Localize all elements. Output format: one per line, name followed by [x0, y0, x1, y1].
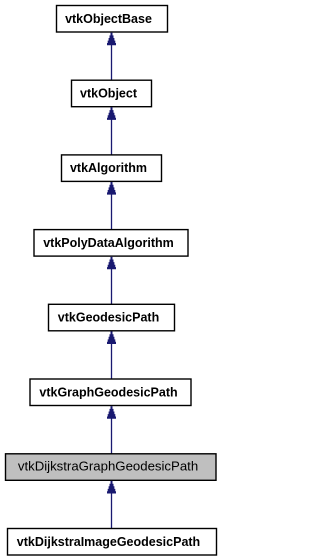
node vtkAlgorithm — [62, 155, 162, 182]
node vtkObjectBase — [57, 6, 168, 33]
svg-text:vtkDijkstraImageGeodesicPath: vtkDijkstraImageGeodesicPath — [17, 535, 200, 549]
edge vtkObject to vtkObjectBase — [106, 33, 116, 81]
svg-text:vtkAlgorithm: vtkAlgorithm — [70, 161, 147, 175]
node vtkObject — [72, 80, 152, 107]
edge vtkGeodesicPath to vtkPolyDataAlgorithm — [106, 257, 116, 305]
node vtkGeodesicPath — [49, 304, 175, 331]
edge vtkDijkstraImageGeodesicPath to vtkDijkstraGraphGeodesicPath — [106, 481, 116, 529]
node vtkGraphGeodesicPath — [30, 379, 191, 406]
edge vtkPolyDataAlgorithm to vtkAlgorithm — [106, 182, 116, 230]
node vtkDijkstraGraphGeodesicPath (current class, grey) — [6, 454, 217, 481]
svg-text:vtkGraphGeodesicPath: vtkGraphGeodesicPath — [39, 385, 177, 399]
svg-text:vtkPolyDataAlgorithm: vtkPolyDataAlgorithm — [43, 236, 174, 250]
svg-text:vtkObject: vtkObject — [80, 87, 138, 101]
node vtkPolyDataAlgorithm — [34, 230, 188, 257]
node vtkDijkstraImageGeodesicPath — [8, 529, 217, 556]
svg-text:vtkObjectBase: vtkObjectBase — [65, 12, 152, 26]
svg-text:vtkGeodesicPath: vtkGeodesicPath — [58, 311, 159, 325]
edge vtkGraphGeodesicPath to vtkGeodesicPath — [106, 331, 116, 379]
svg-text:vtkDijkstraGraphGeodesicPath: vtkDijkstraGraphGeodesicPath — [18, 459, 198, 474]
edge vtkAlgorithm to vtkObject — [106, 107, 116, 155]
edge vtkDijkstraGraphGeodesicPath to vtkGraphGeodesicPath — [106, 406, 116, 454]
